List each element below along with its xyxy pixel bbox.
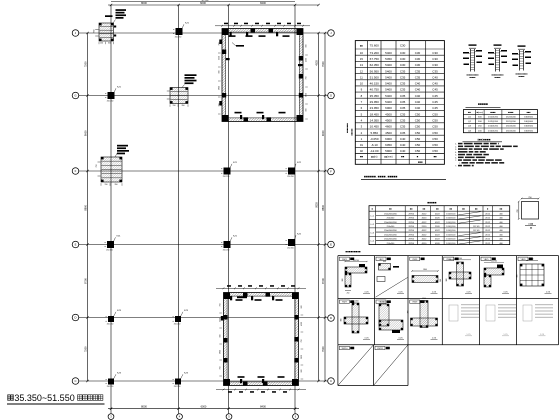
svg-text:51.500: 51.500 (370, 75, 380, 79)
svg-text:■■■■■: ■■■■■ (494, 76, 501, 79)
svg-text:350: 350 (108, 43, 111, 45)
svg-text:2800: 2800 (220, 350, 222, 354)
svg-text:D6@600: D6@600 (524, 130, 533, 132)
column KZ3 (108, 316, 114, 322)
svg-text:C50: C50 (415, 118, 421, 122)
svg-text:YBZ9: YBZ9 (412, 302, 418, 304)
svg-text:5400: 5400 (385, 82, 392, 86)
svg-text:300 1500: 300 1500 (382, 302, 389, 304)
svg-text:28750: 28750 (408, 218, 414, 220)
svg-text:250 250: 250 250 (287, 248, 294, 250)
core wall inner (227, 296, 295, 382)
svg-text:2800: 2800 (218, 86, 220, 90)
svg-text:C30: C30 (415, 63, 421, 67)
column KZ1 (108, 92, 115, 99)
svg-text:C30: C30 (415, 51, 421, 55)
svg-text:15: 15 (360, 57, 364, 61)
svg-text:750: 750 (220, 304, 222, 307)
svg-text:F: F (330, 170, 332, 174)
svg-text:C30: C30 (432, 57, 438, 61)
core top dimension line (215, 25, 310, 27)
column KZ3 (175, 379, 181, 385)
svg-text:C45: C45 (432, 88, 438, 92)
svg-text:E: E (330, 243, 332, 247)
svg-text:■■■■■■■: ■■■■■■■ (346, 123, 349, 133)
svg-text:YBZ1: YBZ1 (342, 259, 348, 261)
drawing title (8, 395, 11, 401)
floor level and concrete grade table (355, 41, 444, 165)
svg-text:5400: 5400 (385, 88, 392, 92)
svg-text:C50: C50 (432, 118, 438, 122)
svg-text:1200: 1200 (422, 298, 426, 300)
svg-text:5400: 5400 (385, 63, 392, 67)
svg-text:C30: C30 (400, 43, 406, 47)
svg-text:■■■■■: ■■■■■ (351, 128, 354, 136)
YBZ5 cell (481, 257, 491, 260)
svg-text:■■: ■■ (433, 156, 437, 159)
coupling beam table slash cells (458, 212, 480, 215)
faint row2 right cells (449, 304, 479, 321)
svg-text:200 1200: 200 1200 (351, 301, 358, 303)
empty crossed cell 2 (row3) (375, 346, 385, 349)
svg-text:C50: C50 (432, 112, 438, 116)
svg-text:56.950: 56.950 (370, 69, 380, 73)
svg-text:5900: 5900 (385, 149, 392, 153)
svg-text:28750: 28750 (408, 234, 414, 236)
svg-text:C40: C40 (415, 88, 421, 92)
svg-text:900: 900 (342, 279, 344, 282)
svg-text:1800: 1800 (423, 269, 427, 271)
svg-text:250x2000/200: 250x2000/200 (384, 222, 398, 224)
svg-text:D10@200: D10@200 (506, 130, 517, 132)
svg-text:5400: 5400 (385, 51, 392, 55)
bottom core wall labels (236, 299, 243, 301)
svg-text:250x500: 250x500 (387, 218, 396, 220)
svg-text:C50: C50 (415, 112, 421, 116)
svg-text:28750: 28750 (408, 239, 414, 241)
core wall stubs (230, 32, 232, 36)
svg-text:23.950: 23.950 (370, 106, 380, 110)
YBZ2 cell (376, 257, 386, 260)
svg-text:6000: 6000 (385, 106, 392, 110)
svg-text:■(mm): ■(mm) (477, 111, 484, 114)
svg-text:7500: 7500 (84, 346, 88, 352)
grid bubble right row 5 (328, 315, 335, 322)
svg-text:D10@100: D10@100 (446, 239, 456, 241)
svg-text:9000: 9000 (321, 130, 325, 136)
svg-text:8800: 8800 (321, 204, 325, 210)
svg-text:C40: C40 (432, 75, 438, 79)
svg-text:250x2000/200: 250x2000/200 (384, 230, 398, 232)
svg-text:300: 300 (408, 311, 410, 314)
svg-text:9000: 9000 (316, 202, 319, 208)
svg-text:C40: C40 (400, 143, 406, 147)
column KZ1 (176, 28, 183, 35)
svg-text:C30: C30 (400, 51, 406, 55)
YBZ1 cell (339, 257, 349, 260)
core wall inner (226, 32, 300, 118)
svg-text:4500: 4500 (306, 58, 308, 62)
svg-text:YBZ5: YBZ5 (483, 259, 489, 261)
grid bubble bottom col 3 (226, 414, 232, 420)
column KZ1 (224, 168, 231, 175)
svg-text:4500: 4500 (385, 131, 392, 135)
svg-text:150: 150 (100, 43, 103, 45)
svg-text:250 250: 250 250 (223, 250, 230, 252)
core wall chips (243, 293, 248, 297)
svg-text:28750: 28750 (408, 226, 414, 228)
svg-text:D10@200: D10@200 (488, 130, 499, 132)
svg-text:C50: C50 (415, 143, 421, 147)
core wall hatch (222, 29, 303, 122)
boundary element grid lines (338, 255, 559, 257)
YBZ3 cell (410, 257, 420, 260)
svg-text:12: 12 (360, 69, 364, 73)
svg-text:250 250: 250 250 (174, 386, 181, 388)
horizontal grid line row 1 (79, 32, 328, 34)
svg-text:8700: 8700 (84, 278, 88, 284)
svg-text:250x2000/200: 250x2000/200 (384, 234, 398, 236)
svg-text:40.750: 40.750 (370, 88, 380, 92)
svg-text:900: 900 (220, 335, 222, 338)
bottom core bottom dimension line (216, 389, 306, 391)
coupling beam section sketch (522, 202, 539, 220)
svg-text:■■■■■: ■■■■■ (427, 200, 436, 204)
svg-text:2250: 2250 (220, 318, 222, 322)
svg-text:4500: 4500 (301, 322, 303, 326)
svg-text:C50: C50 (432, 143, 438, 147)
svg-text:■■■■■■. ■■■■. ■■■■■: ■■■■■■. ■■■■. ■■■■■ (364, 174, 398, 178)
core wall chips (251, 29, 256, 33)
svg-text:4600: 4600 (385, 125, 392, 129)
svg-text:D: D (330, 316, 332, 320)
svg-text:C35: C35 (432, 69, 438, 73)
svg-text:C35: C35 (400, 106, 406, 110)
svg-text:■■■■■■■■■■: ■■■■■■■■■■ (466, 73, 479, 76)
svg-text:14.050: 14.050 (370, 118, 380, 122)
svg-text:C35: C35 (400, 75, 406, 79)
svg-text:C45: C45 (432, 106, 438, 110)
YBZ6 cell (518, 257, 528, 260)
svg-text:750: 750 (301, 340, 303, 343)
svg-text:D10@100: D10@100 (446, 226, 456, 228)
column KZ1 (107, 241, 114, 248)
svg-text:F: F (75, 169, 77, 173)
core corner columns (224, 293, 231, 300)
svg-text:18.450: 18.450 (370, 112, 380, 116)
core wall stubs (230, 296, 232, 300)
grid bubble left row 1 (72, 30, 79, 37)
svg-text:D: D (74, 316, 76, 320)
svg-text:C40: C40 (415, 106, 421, 110)
svg-text:250: 250 (347, 293, 350, 295)
svg-text:C50: C50 (415, 149, 421, 153)
svg-text:5400: 5400 (385, 94, 392, 98)
svg-text:132 4D: 132 4D (473, 230, 480, 232)
svg-text:6000: 6000 (385, 137, 392, 141)
pier detail GBZ1 top-left (99, 23, 114, 41)
svg-text:D12@200: D12@200 (506, 117, 517, 119)
svg-text:01: 01 (360, 143, 364, 147)
svg-text:29.950: 29.950 (370, 100, 380, 104)
svg-text:73.200: 73.200 (370, 51, 380, 55)
svg-text:5450: 5450 (385, 57, 392, 61)
pier detail GBZ5 left-centre (101, 157, 122, 182)
svg-text:250 250: 250 250 (107, 324, 114, 326)
svg-text:4500: 4500 (385, 118, 392, 122)
grid bubble right row 4 (328, 241, 335, 248)
svg-text:5.850: 5.850 (370, 131, 378, 135)
svg-text:E: E (75, 243, 77, 247)
wall vertical-bar anchorage detail 2 (495, 49, 497, 72)
column KZ1 (224, 241, 231, 248)
svg-text:■■■■■■■■■■: ■■■■■■■■■■ (515, 72, 528, 75)
svg-text:C50: C50 (432, 137, 438, 141)
svg-text:C40: C40 (400, 137, 406, 141)
svg-text:D10@200: D10@200 (488, 126, 499, 128)
svg-text:C45: C45 (432, 94, 438, 98)
svg-text:C30: C30 (400, 63, 406, 67)
svg-text:D10@100: D10@100 (446, 214, 456, 216)
svg-text:2850: 2850 (306, 93, 308, 97)
svg-text:C40: C40 (415, 82, 421, 86)
svg-text:■■: ■■ (530, 227, 532, 229)
svg-text:10.450: 10.450 (370, 125, 380, 129)
svg-text:67.750: 67.750 (370, 57, 380, 61)
svg-text:150: 150 (105, 184, 108, 186)
svg-text:9000: 9000 (84, 130, 88, 136)
YBZ8 cell (row2) (376, 300, 386, 303)
svg-text:8400: 8400 (260, 1, 266, 5)
svg-text:900: 900 (218, 71, 220, 74)
core wall outer (224, 293, 299, 386)
core corner columns (222, 29, 229, 36)
svg-text:D10@100: D10@100 (446, 234, 456, 236)
svg-text:YBZ6: YBZ6 (520, 259, 526, 261)
column KZ3 (175, 316, 181, 322)
svg-text:900: 900 (306, 45, 308, 48)
YBZ4 cell (444, 257, 454, 260)
svg-text:250x2000/200: 250x2000/200 (384, 214, 398, 216)
grid bubble left row 6 (72, 378, 79, 385)
svg-text:35.350~51.550: 35.350~51.550 (14, 393, 74, 403)
svg-text:C: C (330, 379, 332, 383)
svg-text:2850: 2850 (301, 355, 303, 359)
vertical grid line col 4 (294, 5, 296, 414)
svg-text:62.350: 62.350 (370, 63, 380, 67)
svg-text:C35: C35 (400, 94, 406, 98)
svg-text:C30: C30 (415, 57, 421, 61)
svg-text:C50: C50 (432, 131, 438, 135)
svg-text:750: 750 (218, 104, 220, 107)
svg-text:C35: C35 (400, 88, 406, 92)
grid bubble right row 2 (328, 92, 335, 99)
svg-text:C35: C35 (400, 131, 406, 135)
svg-text:■■(mm): ■■(mm) (384, 156, 392, 159)
svg-text:■■■■■: ■■■■■ (478, 102, 488, 106)
svg-text:250 250: 250 250 (107, 101, 114, 103)
core wall outer (222, 29, 303, 122)
svg-text:YBZ7: YBZ7 (342, 302, 348, 304)
right dimension lines (318, 33, 320, 381)
bottom core top dimension line (216, 287, 306, 289)
svg-text:C50: C50 (415, 137, 421, 141)
svg-text:C35: C35 (400, 118, 406, 122)
svg-text:-0.050: -0.050 (370, 137, 379, 141)
svg-text:10: 10 (360, 82, 364, 86)
svg-text:8000: 8000 (141, 405, 147, 409)
svg-text:28750: 28750 (408, 230, 414, 232)
svg-text:C35: C35 (400, 69, 406, 73)
svg-text:C35: C35 (400, 112, 406, 116)
column KZ3 (108, 379, 114, 385)
svg-text:8800: 8800 (84, 204, 88, 210)
svg-text:75.600: 75.600 (370, 43, 380, 47)
svg-text:■■■■: ■■■■ (490, 111, 496, 114)
column KZ2 (288, 168, 295, 175)
svg-text:800: 800 (383, 261, 386, 263)
svg-text:C30: C30 (432, 63, 438, 67)
svg-text:46.150: 46.150 (370, 82, 380, 86)
vertical grid line col 3 (228, 5, 230, 414)
svg-text:8400: 8400 (260, 405, 266, 409)
floor table footer (355, 153, 444, 155)
svg-text:YBZ3: YBZ3 (412, 259, 418, 261)
svg-text:8000: 8000 (141, 1, 147, 5)
svg-text:28750: 28750 (408, 222, 414, 224)
svg-text:250x2000/200: 250x2000/200 (384, 239, 398, 241)
svg-text:16: 16 (360, 51, 364, 55)
svg-text:13: 13 (360, 63, 364, 67)
svg-text:D6@600: D6@600 (524, 117, 533, 119)
svg-text:350: 350 (182, 105, 185, 107)
pier detail GBZ2 centre (170, 88, 188, 104)
svg-text:250 250: 250 250 (223, 176, 230, 178)
svg-text:200 900: 200 900 (353, 260, 359, 262)
svg-text:D10@200: D10@200 (506, 126, 517, 128)
svg-text:D10@100: D10@100 (446, 218, 456, 220)
svg-text:750: 750 (306, 77, 308, 80)
svg-text:250 250: 250 250 (106, 250, 113, 252)
grid bubble right row 6 (328, 378, 335, 385)
svg-text:7500: 7500 (321, 346, 325, 352)
svg-text:■■■: ■■■ (527, 111, 532, 114)
svg-text:G: G (330, 94, 332, 98)
svg-text:250 250: 250 250 (107, 386, 114, 388)
column KZ2 (288, 239, 295, 246)
svg-text:YBZ11: YBZ11 (377, 348, 384, 350)
svg-text:■■(m): ■■(m) (371, 156, 377, 159)
svg-text:■■■■■■■■■■: ■■■■■■■■■■ (491, 73, 504, 76)
svg-text:C50: C50 (432, 125, 438, 129)
svg-text:47700: 47700 (202, 0, 209, 2)
svg-text:C35: C35 (415, 75, 421, 79)
svg-text:350: 350 (115, 184, 118, 186)
empty crossed cell 1 (row3) (339, 346, 349, 349)
svg-text:7500: 7500 (321, 61, 325, 67)
svg-text:LL■■: LL■■ (528, 222, 534, 225)
svg-text:C40: C40 (400, 149, 406, 153)
svg-text:250 250: 250 250 (287, 176, 294, 178)
wall reinforcement table (463, 110, 537, 133)
svg-text:-6.10: -6.10 (371, 143, 378, 147)
svg-text:750: 750 (96, 165, 98, 168)
svg-text:4500: 4500 (385, 112, 392, 116)
svg-text:D12@200: D12@200 (488, 117, 499, 119)
core wall labels (229, 35, 236, 37)
horizontal grid line row 6 (79, 380, 328, 382)
svg-text:D6@600: D6@600 (524, 121, 533, 123)
horizontal grid line row 4 (79, 244, 328, 246)
grid bubble bottom col 2 (177, 414, 183, 420)
grid bubble left row 3 (72, 168, 79, 175)
svg-text:C40: C40 (415, 100, 421, 104)
svg-text:200 900: 200 900 (491, 261, 497, 263)
svg-text:6050: 6050 (385, 143, 392, 147)
svg-text:8700: 8700 (321, 278, 325, 284)
svg-text:250 250: 250 250 (174, 324, 181, 326)
svg-text:C50: C50 (432, 149, 438, 153)
svg-text:250x500: 250x500 (387, 243, 396, 245)
horizontal grid line row 3 (79, 170, 328, 172)
core interior label (236, 45, 244, 47)
svg-text:C50: C50 (415, 131, 421, 135)
svg-text:C35: C35 (400, 100, 406, 104)
grid bubble right row 1 (328, 30, 335, 37)
svg-text:2250: 2250 (218, 56, 220, 60)
vertical grid line col 2 (178, 5, 180, 414)
grid bubble left row 4 (72, 241, 79, 248)
svg-text:D10@100: D10@100 (446, 222, 456, 224)
svg-text:900: 900 (531, 259, 534, 261)
svg-text:132 4D: 132 4D (473, 226, 480, 228)
svg-text:5400: 5400 (385, 69, 392, 73)
YBZ7 cell (row2) (339, 300, 349, 303)
svg-text:35.350: 35.350 (370, 94, 380, 98)
svg-text:900: 900 (517, 275, 519, 278)
grid bubble left row 5 (72, 314, 79, 321)
svg-text:■■■■■: ■■■■■ (518, 75, 525, 78)
svg-text:900: 900 (301, 306, 303, 309)
svg-text:600: 600 (94, 30, 96, 33)
svg-text:C50: C50 (415, 125, 421, 129)
svg-text:02: 02 (360, 149, 364, 153)
svg-text:D12@200: D12@200 (488, 121, 499, 123)
svg-text:200 300: 200 300 (456, 258, 462, 260)
grid bubble right row 3 (328, 168, 335, 175)
svg-text:250x500: 250x500 (387, 226, 396, 228)
YBZ9 cell (row2) (410, 300, 420, 303)
grid bubble left row 2 (72, 92, 79, 99)
svg-text:C35: C35 (400, 125, 406, 129)
horizontal grid line row 2 (79, 95, 328, 97)
svg-text:C40: C40 (415, 94, 421, 98)
svg-text:■■■■■: ■■■■■ (469, 76, 476, 79)
svg-text:■■: ■■ (360, 156, 364, 159)
horizontal grid line row 5 (79, 317, 328, 319)
left dimension line (87, 33, 89, 381)
svg-text:D6@600: D6@600 (524, 126, 533, 128)
grid bubble bottom col 1 (108, 414, 114, 420)
svg-text:5400: 5400 (385, 75, 392, 79)
svg-text:C40: C40 (432, 82, 438, 86)
svg-text:C45: C45 (432, 100, 438, 104)
svg-text:-12.00: -12.00 (370, 149, 379, 153)
svg-text:C35: C35 (400, 82, 406, 86)
top dimension line (108, 4, 319, 6)
svg-text:250 250: 250 250 (175, 37, 182, 39)
svg-text:C35: C35 (415, 69, 421, 73)
